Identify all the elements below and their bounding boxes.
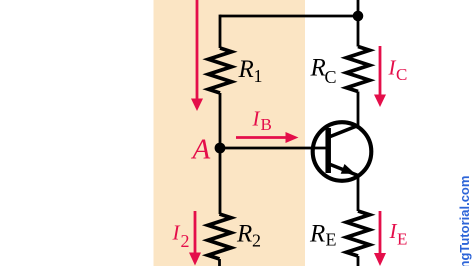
wire: top rail from R1 branch to supply node	[220, 15, 358, 18]
svg-text:I: I	[252, 106, 261, 130]
label I2	[172, 220, 190, 251]
svg-text:R: R	[310, 55, 326, 82]
junction dot at supply node	[353, 11, 364, 22]
svg-text:I: I	[172, 220, 181, 244]
svg-text:B: B	[261, 115, 272, 134]
label IE	[389, 219, 408, 249]
resistor RC	[347, 47, 370, 92]
wire: supply lead from top edge down to RC	[357, 0, 360, 47]
label IB	[252, 106, 272, 134]
svg-text:R: R	[236, 221, 252, 248]
svg-text:R: R	[309, 221, 325, 248]
node A junction dot	[215, 143, 226, 154]
label R2	[236, 221, 261, 251]
highlight band	[154, 0, 306, 266]
resistor R1	[209, 48, 232, 93]
svg-text:E: E	[326, 230, 337, 250]
wire: RE to bottom edge	[357, 256, 360, 266]
resistor R2	[208, 214, 231, 259]
resistor RE	[347, 211, 370, 256]
svg-text:2: 2	[181, 231, 190, 251]
wire: node A down to R2	[219, 148, 222, 214]
current arrow IB (rightward)	[236, 132, 299, 143]
label IC	[388, 56, 408, 84]
transistor Q1	[313, 122, 372, 181]
svg-text:ngTutorial.com: ngTutorial.com	[457, 176, 472, 266]
svg-text:A: A	[191, 134, 211, 166]
wire: R2 to bottom edge	[218, 259, 221, 266]
wire: from top rail down to R1	[219, 15, 222, 48]
svg-text:C: C	[396, 65, 407, 84]
current arrow I2 (downward)	[189, 211, 201, 266]
svg-text:C: C	[325, 67, 337, 87]
svg-text:1: 1	[254, 66, 263, 86]
current arrow IC (downward)	[374, 46, 386, 107]
label R1	[238, 56, 263, 86]
svg-text:2: 2	[252, 231, 261, 251]
label RC	[310, 55, 337, 88]
label RE	[309, 221, 337, 250]
svg-text:R: R	[238, 56, 254, 83]
current arrow I1 (top left, downward)	[191, 0, 203, 111]
wire: emitter down to RE	[357, 176, 360, 212]
wire: R1 to node A	[219, 93, 222, 148]
svg-text:E: E	[397, 230, 407, 249]
current arrow IE (downward)	[374, 211, 386, 266]
wire: base wire from node A to transistor	[220, 147, 326, 150]
wire: RC down to collector	[357, 92, 360, 126]
